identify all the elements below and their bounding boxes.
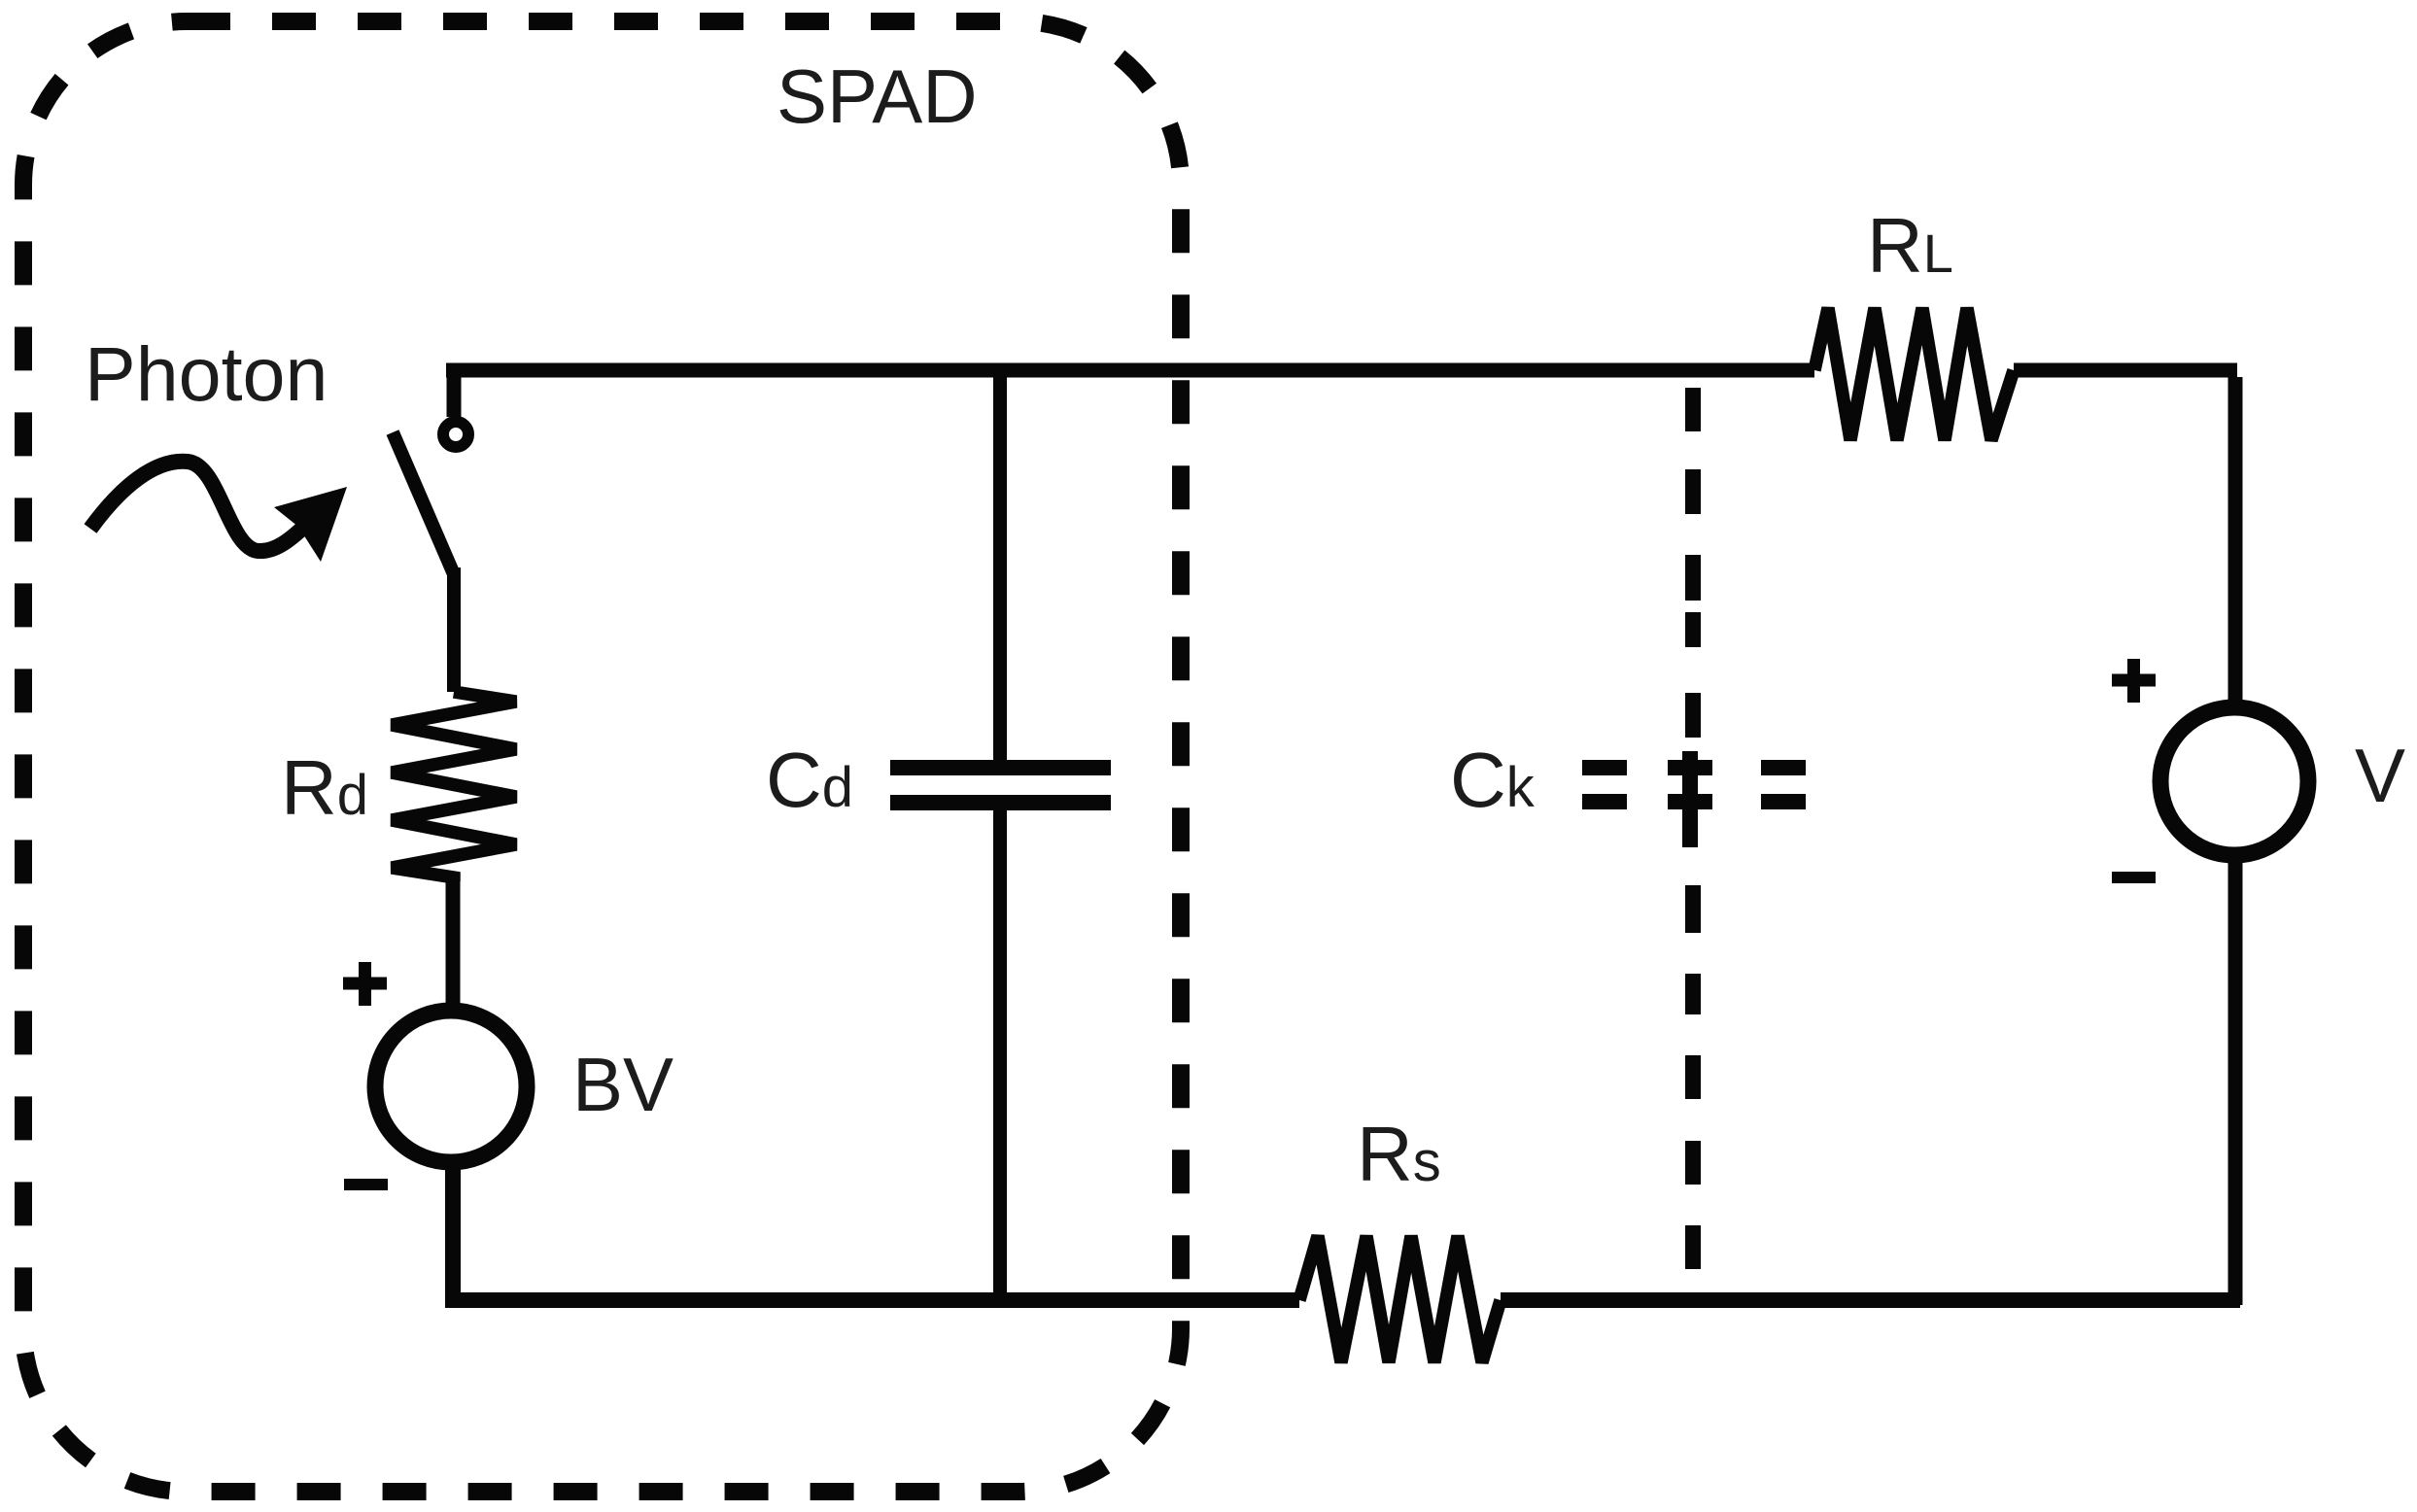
- photon wavy arrow: [90, 462, 305, 551]
- capacitor Cd plates: [890, 768, 1111, 803]
- SPAD dashed boundary box: [23, 21, 1181, 1492]
- capacitor Cd top lead: [993, 370, 1007, 760]
- svg-text:BV: BV: [572, 1042, 673, 1127]
- wire: right rail upper (RL to V+): [2228, 377, 2243, 707]
- svg-text:V: V: [2355, 733, 2405, 818]
- minus sign at V: [2112, 872, 2156, 883]
- resistor Rd zigzag: [392, 692, 516, 881]
- svg-text:Rs: Rs: [1357, 1111, 1441, 1197]
- svg-text:Ck: Ck: [1450, 737, 1536, 823]
- plus sign at BV: [343, 962, 387, 1006]
- capacitor Ck dashed plates: [1582, 768, 1806, 802]
- capacitor Ck center connector dashes: [1682, 751, 1698, 847]
- switch S (photon triggered) contact circle: [443, 422, 468, 447]
- resistor RL zigzag: [1814, 308, 2014, 440]
- wire: lever to Rd: [447, 567, 461, 692]
- capacitor Cd bottom lead: [993, 810, 1007, 1300]
- svg-text:SPAD: SPAD: [777, 53, 978, 139]
- svg-text:Rd: Rd: [281, 744, 368, 831]
- voltage source BV circle: [375, 1011, 527, 1162]
- voltage source V circle: [2160, 707, 2308, 855]
- capacitor Ck dashed top lead: [1685, 388, 1701, 738]
- wire: right rail lower (V- to bottom rail): [2228, 855, 2243, 1305]
- svg-text:Cd: Cd: [766, 737, 853, 823]
- plus sign at V: [2112, 659, 2156, 703]
- wire: bottom rail: [446, 1292, 2240, 1308]
- wire: Rd to BV+: [446, 881, 461, 1006]
- capacitor Ck dashed bottom lead: [1685, 885, 1701, 1269]
- minus sign at BV: [344, 1179, 388, 1190]
- wire: top rail (node K): [446, 363, 2237, 378]
- wire: switch stub from top rail: [447, 370, 462, 417]
- svg-text:RL: RL: [1867, 202, 1953, 289]
- svg-text:Photon: Photon: [85, 330, 328, 417]
- wire: BV- down to bottom rail corner: [445, 1163, 461, 1308]
- resistor Rs zigzag: [1299, 1236, 1501, 1362]
- switch S lever arm: [393, 432, 454, 574]
